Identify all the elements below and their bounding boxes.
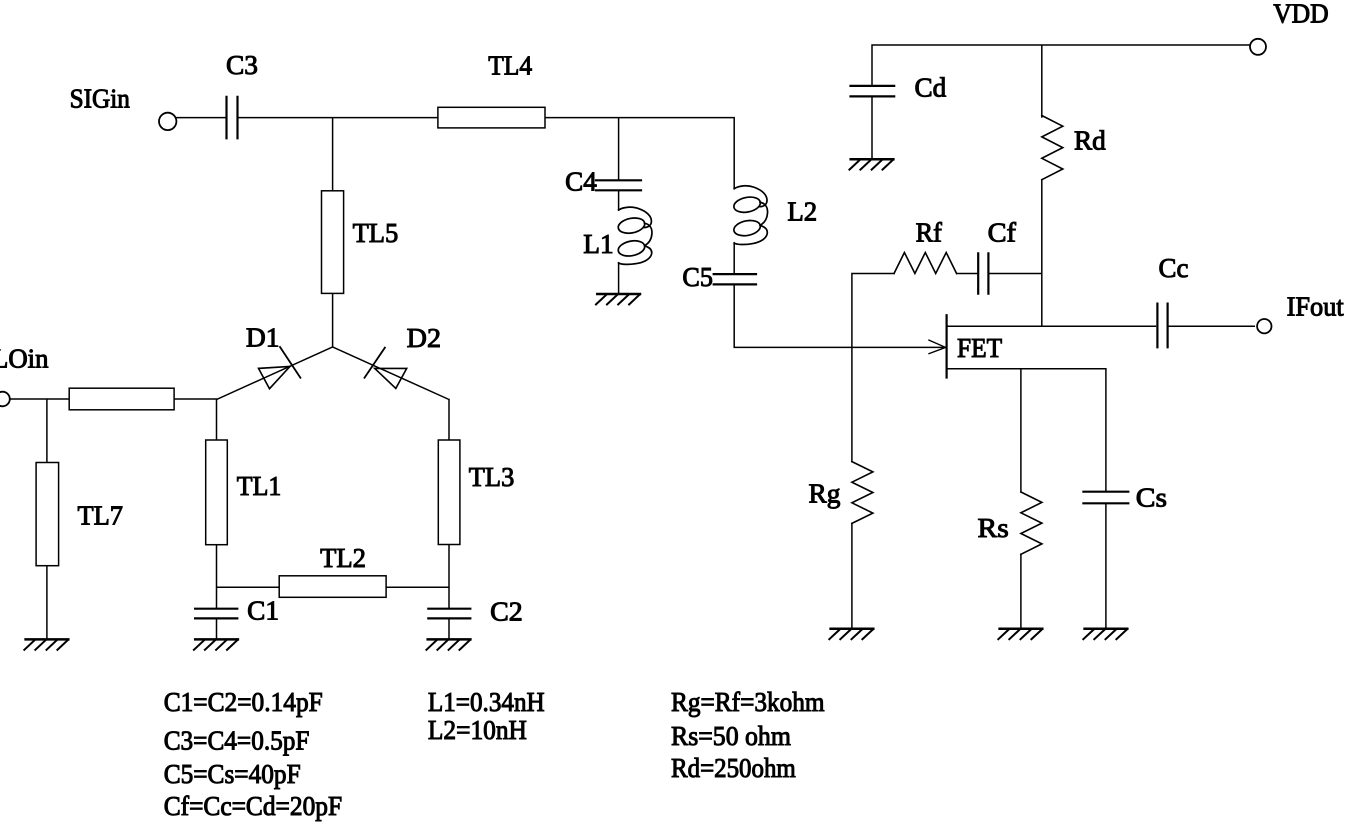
svg-text:Rd=250ohm: Rd=250ohm xyxy=(671,753,796,783)
svg-text:C1=C2=0.14pF: C1=C2=0.14pF xyxy=(164,687,323,717)
svg-text:C5=Cs=40pF: C5=Cs=40pF xyxy=(164,759,301,789)
svg-text:TL1: TL1 xyxy=(237,471,281,501)
svg-text:C5: C5 xyxy=(682,262,713,292)
svg-text:FET: FET xyxy=(957,333,1003,363)
svg-text:C1: C1 xyxy=(247,595,279,625)
svg-text:LOin: LOin xyxy=(0,344,49,374)
svg-text:Cf=Cc=Cd=20pF: Cf=Cc=Cd=20pF xyxy=(164,791,342,821)
svg-text:Rf: Rf xyxy=(916,217,942,247)
svg-text:Rs: Rs xyxy=(978,513,1009,543)
svg-text:Rg: Rg xyxy=(809,479,841,509)
svg-text:IFout: IFout xyxy=(1287,291,1345,321)
svg-text:Rg=Rf=3kohm: Rg=Rf=3kohm xyxy=(671,687,825,717)
svg-text:TL3: TL3 xyxy=(469,462,515,492)
svg-text:L1: L1 xyxy=(583,229,613,259)
svg-text:D2: D2 xyxy=(407,323,441,353)
svg-text:L2: L2 xyxy=(787,197,817,227)
svg-text:L2=10nH: L2=10nH xyxy=(428,715,527,745)
svg-text:VDD: VDD xyxy=(1273,0,1329,29)
svg-text:SIGin: SIGin xyxy=(70,83,131,113)
svg-text:D1: D1 xyxy=(246,322,280,352)
svg-text:C4: C4 xyxy=(565,167,597,197)
svg-text:C3: C3 xyxy=(226,50,258,80)
svg-text:Rs=50 ohm: Rs=50 ohm xyxy=(671,721,791,751)
svg-text:Rd: Rd xyxy=(1074,126,1106,156)
svg-text:TL2: TL2 xyxy=(320,543,366,573)
svg-text:C3=C4=0.5pF: C3=C4=0.5pF xyxy=(164,725,310,755)
svg-text:Cc: Cc xyxy=(1159,253,1189,283)
svg-text:TL7: TL7 xyxy=(78,500,124,530)
svg-text:TL5: TL5 xyxy=(353,218,399,248)
svg-text:C2: C2 xyxy=(490,597,523,627)
svg-text:Cd: Cd xyxy=(915,72,947,102)
svg-text:L1=0.34nH: L1=0.34nH xyxy=(428,687,545,717)
svg-text:Cf: Cf xyxy=(988,218,1016,248)
svg-text:TL4: TL4 xyxy=(488,51,532,81)
svg-text:Cs: Cs xyxy=(1136,483,1167,513)
